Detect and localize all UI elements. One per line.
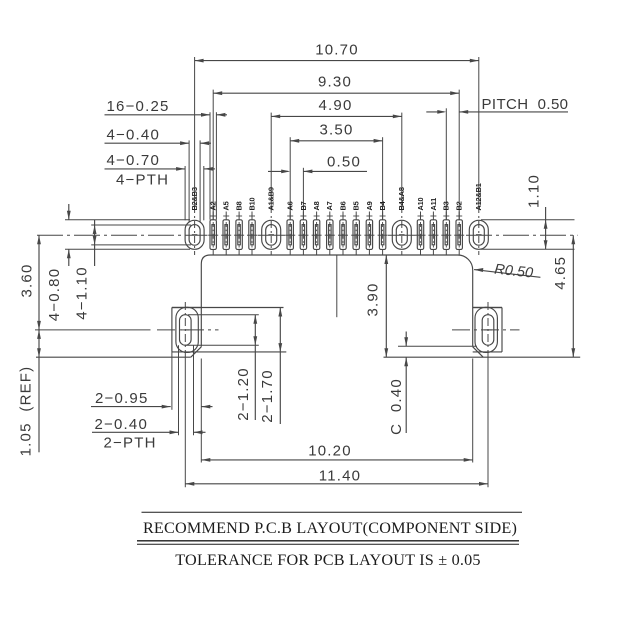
svg-text:10.70: 10.70 [315, 41, 359, 58]
svg-text:16−0.25: 16−0.25 [107, 98, 170, 115]
svg-text:B7: B7 [299, 201, 308, 210]
svg-text:PITCH 0.50: PITCH 0.50 [482, 96, 569, 113]
svg-text:RECOMMEND P.C.B LAYOUT(COMPONE: RECOMMEND P.C.B LAYOUT(COMPONENT SIDE) [143, 519, 517, 537]
svg-text:2−PTH: 2−PTH [104, 435, 157, 452]
svg-text:A7: A7 [325, 201, 334, 210]
svg-text:B3: B3 [442, 201, 451, 210]
svg-text:C 0.40: C 0.40 [388, 378, 405, 435]
svg-text:4−PTH: 4−PTH [116, 171, 169, 188]
svg-text:9.30: 9.30 [318, 74, 352, 91]
svg-text:A12&B1: A12&B1 [474, 183, 483, 210]
svg-text:2−0.95: 2−0.95 [95, 390, 149, 407]
svg-text:2−1.70: 2−1.70 [259, 369, 276, 423]
svg-text:4−0.40: 4−0.40 [107, 127, 161, 144]
svg-text:B8: B8 [235, 201, 244, 210]
svg-text:A8: A8 [312, 201, 321, 210]
svg-text:10.20: 10.20 [308, 442, 352, 459]
svg-text:B2: B2 [455, 201, 464, 210]
svg-text:4.65: 4.65 [552, 256, 569, 290]
svg-text:A10: A10 [416, 197, 425, 210]
svg-text:A11: A11 [429, 198, 438, 211]
svg-text:3.60: 3.60 [19, 264, 36, 298]
svg-text:A1&B9: A1&B9 [267, 187, 276, 210]
svg-text:11.40: 11.40 [319, 468, 361, 485]
svg-text:B5: B5 [352, 201, 361, 210]
svg-text:2−0.40: 2−0.40 [95, 416, 149, 433]
svg-text:B2&B3: B2&B3 [190, 187, 199, 210]
svg-text:TOLERANCE FOR PCB LAYOUT IS ±: TOLERANCE FOR PCB LAYOUT IS ± 0.05 [175, 551, 480, 569]
svg-text:A6: A6 [286, 201, 295, 210]
svg-text:4−0.80: 4−0.80 [46, 268, 63, 322]
svg-text:A2: A2 [209, 201, 218, 210]
svg-text:B10: B10 [247, 197, 256, 210]
svg-text:3.90: 3.90 [364, 283, 381, 317]
svg-text:4−0.70: 4−0.70 [107, 152, 161, 169]
svg-text:A9: A9 [365, 201, 374, 210]
svg-text:B6: B6 [338, 201, 347, 210]
svg-text:B4&A8: B4&A8 [397, 187, 406, 210]
svg-text:1.05 (REF): 1.05 (REF) [18, 366, 35, 457]
svg-text:0.50: 0.50 [327, 153, 361, 170]
svg-text:B4: B4 [378, 200, 387, 210]
svg-text:2−1.20: 2−1.20 [235, 367, 252, 421]
svg-text:4.90: 4.90 [319, 97, 353, 114]
svg-text:A5: A5 [222, 201, 231, 210]
svg-text:3.50: 3.50 [320, 122, 354, 139]
svg-text:4−1.10: 4−1.10 [74, 266, 91, 320]
svg-text:1.10: 1.10 [526, 174, 543, 208]
